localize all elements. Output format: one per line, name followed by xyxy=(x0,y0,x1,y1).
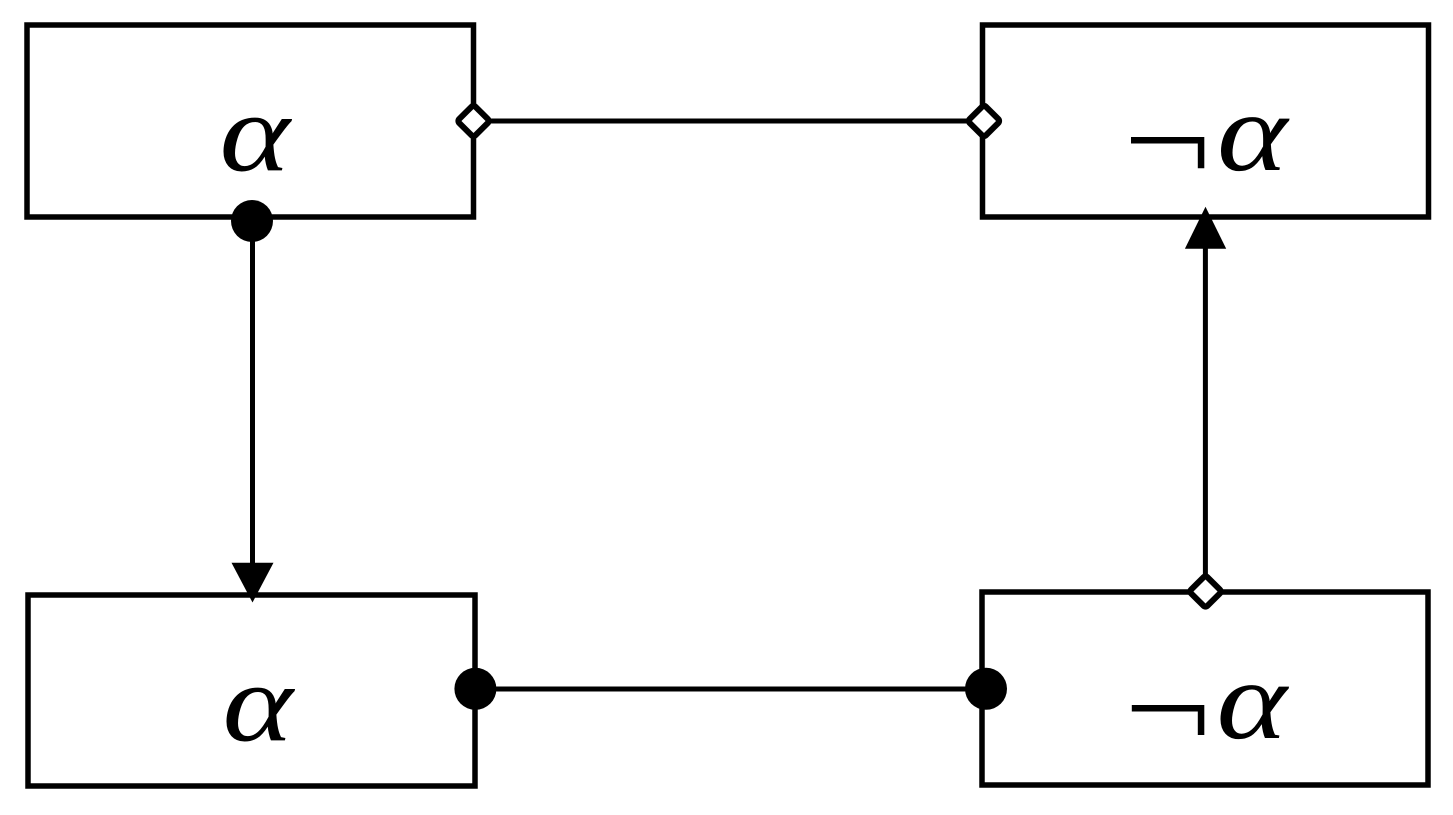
filled circle on right edge of bottom-left box xyxy=(454,668,496,710)
label alpha bottom-left xyxy=(223,641,296,765)
open diamond on top edge of bottom-right box xyxy=(1189,575,1222,608)
wire right vertical xyxy=(1203,240,1208,592)
svg-text:α: α xyxy=(220,71,293,195)
filled circle on left edge of bottom-right box xyxy=(965,668,1007,710)
box alpha bottom-left xyxy=(28,595,475,786)
box alpha top-left xyxy=(27,25,474,217)
label alpha top-left xyxy=(220,71,293,195)
box not-alpha top-right xyxy=(983,25,1429,217)
filled circle on bottom edge of top-left box xyxy=(231,200,273,242)
open diamond on left edge of top-right box xyxy=(968,105,1001,138)
wire left vertical xyxy=(250,220,255,575)
label not-alpha bottom-right xyxy=(1132,705,1205,735)
open diamond on right edge of top-left box xyxy=(457,105,490,138)
label not-alpha top-right xyxy=(1131,137,1204,168)
arrowhead down into bottom-left box xyxy=(232,563,274,603)
svg-text:α: α xyxy=(1217,70,1290,194)
wire top horizontal xyxy=(474,119,985,124)
svg-text:α: α xyxy=(1217,638,1290,762)
wire bottom horizontal xyxy=(475,687,986,692)
svg-text:α: α xyxy=(223,641,296,765)
box not-alpha bottom-right xyxy=(982,592,1428,785)
arrowhead up into top-right box xyxy=(1185,207,1226,249)
